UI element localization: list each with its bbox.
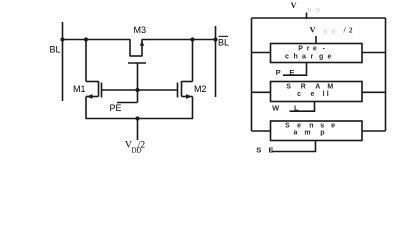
transistor M3 right stub xyxy=(141,40,143,57)
wire PE stub vertical xyxy=(137,90,139,103)
wire PE signal step xyxy=(283,63,307,75)
wire frame left xyxy=(251,18,253,131)
transistor M1 gate bar xyxy=(101,83,103,98)
transistor M3 left stub xyxy=(129,40,131,57)
wire SRAM left lead xyxy=(252,91,271,93)
svg-text:/2: /2 xyxy=(138,141,146,151)
transistor M1 drain wire xyxy=(85,40,87,82)
transistor M3 source arrow xyxy=(140,41,144,46)
svg-text:V: V xyxy=(310,25,317,35)
node BL rail junction xyxy=(60,37,64,41)
transistor M3 gate bar xyxy=(128,62,146,64)
transistor M1 source arrow xyxy=(87,94,93,99)
wire frame right xyxy=(385,18,387,131)
wire VDD/2 stub to precharge xyxy=(315,36,317,43)
node gate net junction xyxy=(135,88,139,92)
transistor M2 drain horizontal xyxy=(182,81,193,83)
wire WL signal step xyxy=(290,102,315,112)
block SRAM cell box xyxy=(271,82,363,102)
transistor M1 drain horizontal xyxy=(86,81,99,83)
svg-text:M2: M2 xyxy=(194,84,207,94)
svg-text:M1: M1 xyxy=(73,84,86,94)
transistor M1 channel bar xyxy=(98,81,100,97)
node BLbar rail junction xyxy=(213,37,217,41)
transistor M2 source horizontal xyxy=(182,96,193,98)
node bottom rail junction xyxy=(135,116,139,120)
wire precharge left lead xyxy=(252,52,271,54)
wire SRAM right lead xyxy=(362,91,386,93)
wire BL bit line vertical xyxy=(62,22,64,101)
wire BLbar bit line vertical xyxy=(215,26,217,97)
wire gate net xyxy=(102,89,178,91)
wire SE signal step xyxy=(272,141,316,152)
label BLbar overline xyxy=(219,36,229,37)
wire VDD stub xyxy=(306,13,308,20)
wire top rail left segment xyxy=(62,39,131,41)
wire bottom rail xyxy=(86,118,193,120)
transistor M2 gate bar xyxy=(177,83,179,98)
wire PE stub horizontal xyxy=(117,102,138,104)
transistor M2 drain wire xyxy=(192,40,194,82)
block Pre-charge box xyxy=(271,44,363,63)
transistor M2 channel bar xyxy=(181,81,183,97)
transistor M2 source wire xyxy=(192,97,194,120)
svg-text:BL: BL xyxy=(50,45,61,55)
svg-text:M3: M3 xyxy=(134,25,147,35)
transistor M2 source arrow xyxy=(186,94,192,99)
svg-text:V: V xyxy=(291,0,298,10)
block Sense amp box xyxy=(271,121,363,141)
transistor M1 source wire xyxy=(85,97,87,120)
transistor M3 channel xyxy=(130,55,142,57)
wire frame top xyxy=(252,17,386,19)
node M1 drain junction xyxy=(84,37,88,41)
wire sense right lead xyxy=(362,130,386,132)
wire top rail right segment xyxy=(142,39,216,41)
svg-text:BL: BL xyxy=(218,38,229,48)
transistor M1 source horizontal xyxy=(86,96,99,98)
transistor M3 gate lead xyxy=(137,63,139,90)
wire precharge right lead xyxy=(362,52,386,54)
wire VDD/2 stub xyxy=(137,119,139,141)
node M2 drain junction xyxy=(190,37,194,41)
svg-text:PE: PE xyxy=(110,103,122,113)
wire sense left lead xyxy=(252,130,271,132)
